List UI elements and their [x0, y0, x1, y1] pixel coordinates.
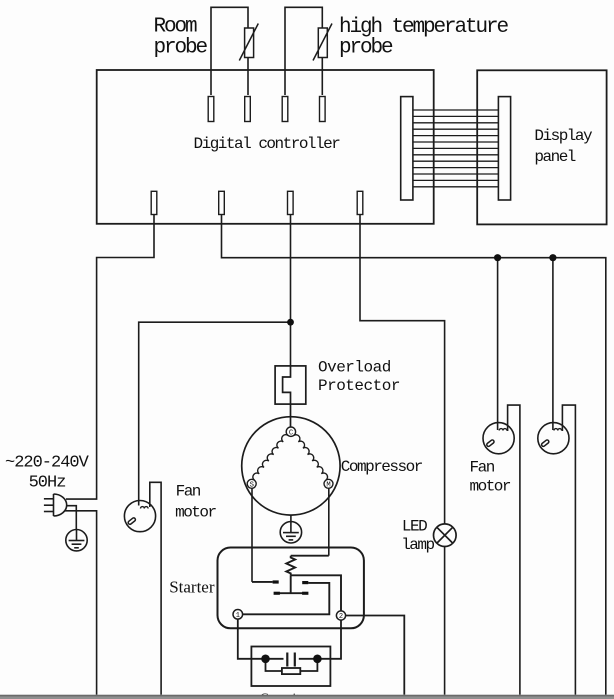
svg-text:probe: probe — [339, 37, 393, 60]
svg-text:Room: Room — [154, 16, 198, 39]
svg-text:Protector: Protector — [318, 377, 400, 395]
svg-text:2: 2 — [339, 613, 343, 621]
svg-text:M: M — [326, 481, 330, 489]
svg-text:Fan: Fan — [176, 483, 201, 501]
svg-text:1: 1 — [236, 612, 240, 620]
svg-text:Fan: Fan — [470, 459, 495, 477]
svg-text:motor: motor — [470, 477, 511, 495]
svg-text:Display: Display — [534, 127, 593, 145]
svg-text:high temperature: high temperature — [339, 16, 509, 39]
svg-text:S: S — [250, 481, 254, 489]
svg-text:Compressor: Compressor — [341, 458, 423, 476]
svg-text:panel: panel — [534, 148, 575, 166]
svg-text:50Hz: 50Hz — [29, 473, 66, 492]
svg-text:C: C — [289, 429, 294, 437]
svg-text:Starter: Starter — [169, 578, 215, 597]
svg-text:~220-240V: ~220-240V — [5, 453, 90, 472]
svg-text:Digital controller: Digital controller — [194, 135, 341, 153]
svg-text:lamp: lamp — [401, 536, 434, 554]
svg-text:Overload: Overload — [318, 359, 391, 377]
svg-text:probe: probe — [154, 37, 208, 60]
svg-text:LED: LED — [402, 518, 427, 536]
svg-text:motor: motor — [175, 503, 216, 521]
